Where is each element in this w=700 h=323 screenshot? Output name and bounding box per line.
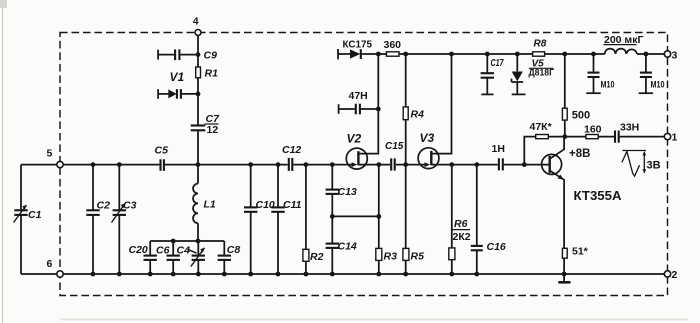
svg-text:C11: C11 (283, 199, 302, 211)
svg-text:2К2: 2К2 (453, 231, 471, 243)
svg-text:360: 360 (384, 39, 402, 51)
svg-text:КТ355А: КТ355А (574, 189, 622, 203)
svg-text:М10: М10 (651, 80, 665, 91)
svg-text:33Н: 33Н (620, 122, 639, 134)
svg-text:R5: R5 (411, 251, 425, 263)
svg-text:V2: V2 (347, 132, 362, 146)
svg-text:6: 6 (47, 258, 53, 270)
svg-text:L1: L1 (204, 199, 216, 211)
svg-text:5: 5 (47, 148, 53, 160)
svg-text:R3: R3 (384, 251, 398, 263)
svg-text:R4: R4 (411, 109, 425, 121)
svg-text:C10: C10 (256, 199, 275, 211)
svg-text:V1: V1 (170, 70, 185, 84)
svg-text:47К*: 47К* (530, 121, 553, 133)
svg-text:3В: 3В (647, 160, 661, 172)
svg-text:C1: C1 (28, 209, 42, 221)
svg-text:51*: 51* (572, 246, 589, 258)
svg-text:C2: C2 (97, 200, 111, 212)
svg-text:C9: C9 (204, 50, 218, 62)
svg-text:C3: C3 (123, 200, 137, 212)
svg-text:C6: C6 (156, 245, 170, 257)
svg-text:C17: C17 (491, 58, 504, 69)
svg-text:C14: C14 (338, 241, 357, 253)
svg-text:3: 3 (672, 50, 678, 62)
svg-text:C13: C13 (338, 186, 357, 198)
svg-text:C8: C8 (227, 244, 241, 256)
svg-text:1Н: 1Н (492, 143, 505, 155)
svg-text:2: 2 (672, 269, 678, 281)
svg-text:R6: R6 (454, 218, 468, 230)
svg-text:V3: V3 (420, 131, 435, 145)
svg-text:160: 160 (584, 124, 602, 136)
svg-text:КС175: КС175 (343, 40, 373, 51)
svg-text:12: 12 (207, 124, 219, 136)
svg-text:R2: R2 (310, 251, 324, 263)
svg-text:C5: C5 (155, 145, 169, 157)
svg-text:C15: C15 (385, 141, 404, 152)
svg-text:C4: C4 (177, 245, 191, 257)
svg-text:R1: R1 (205, 68, 219, 80)
svg-text:4: 4 (193, 16, 199, 28)
svg-text:Д818Г: Д818Г (529, 68, 555, 79)
svg-text:C16: C16 (487, 241, 506, 253)
svg-text:C12: C12 (282, 144, 301, 156)
svg-text:М10: М10 (601, 80, 615, 91)
svg-text:R8: R8 (534, 39, 547, 50)
svg-text:+8В: +8В (569, 148, 590, 160)
svg-text:47Н: 47Н (349, 90, 368, 102)
svg-text:500: 500 (572, 110, 590, 122)
svg-text:C20: C20 (129, 244, 148, 256)
svg-text:1: 1 (672, 132, 678, 144)
